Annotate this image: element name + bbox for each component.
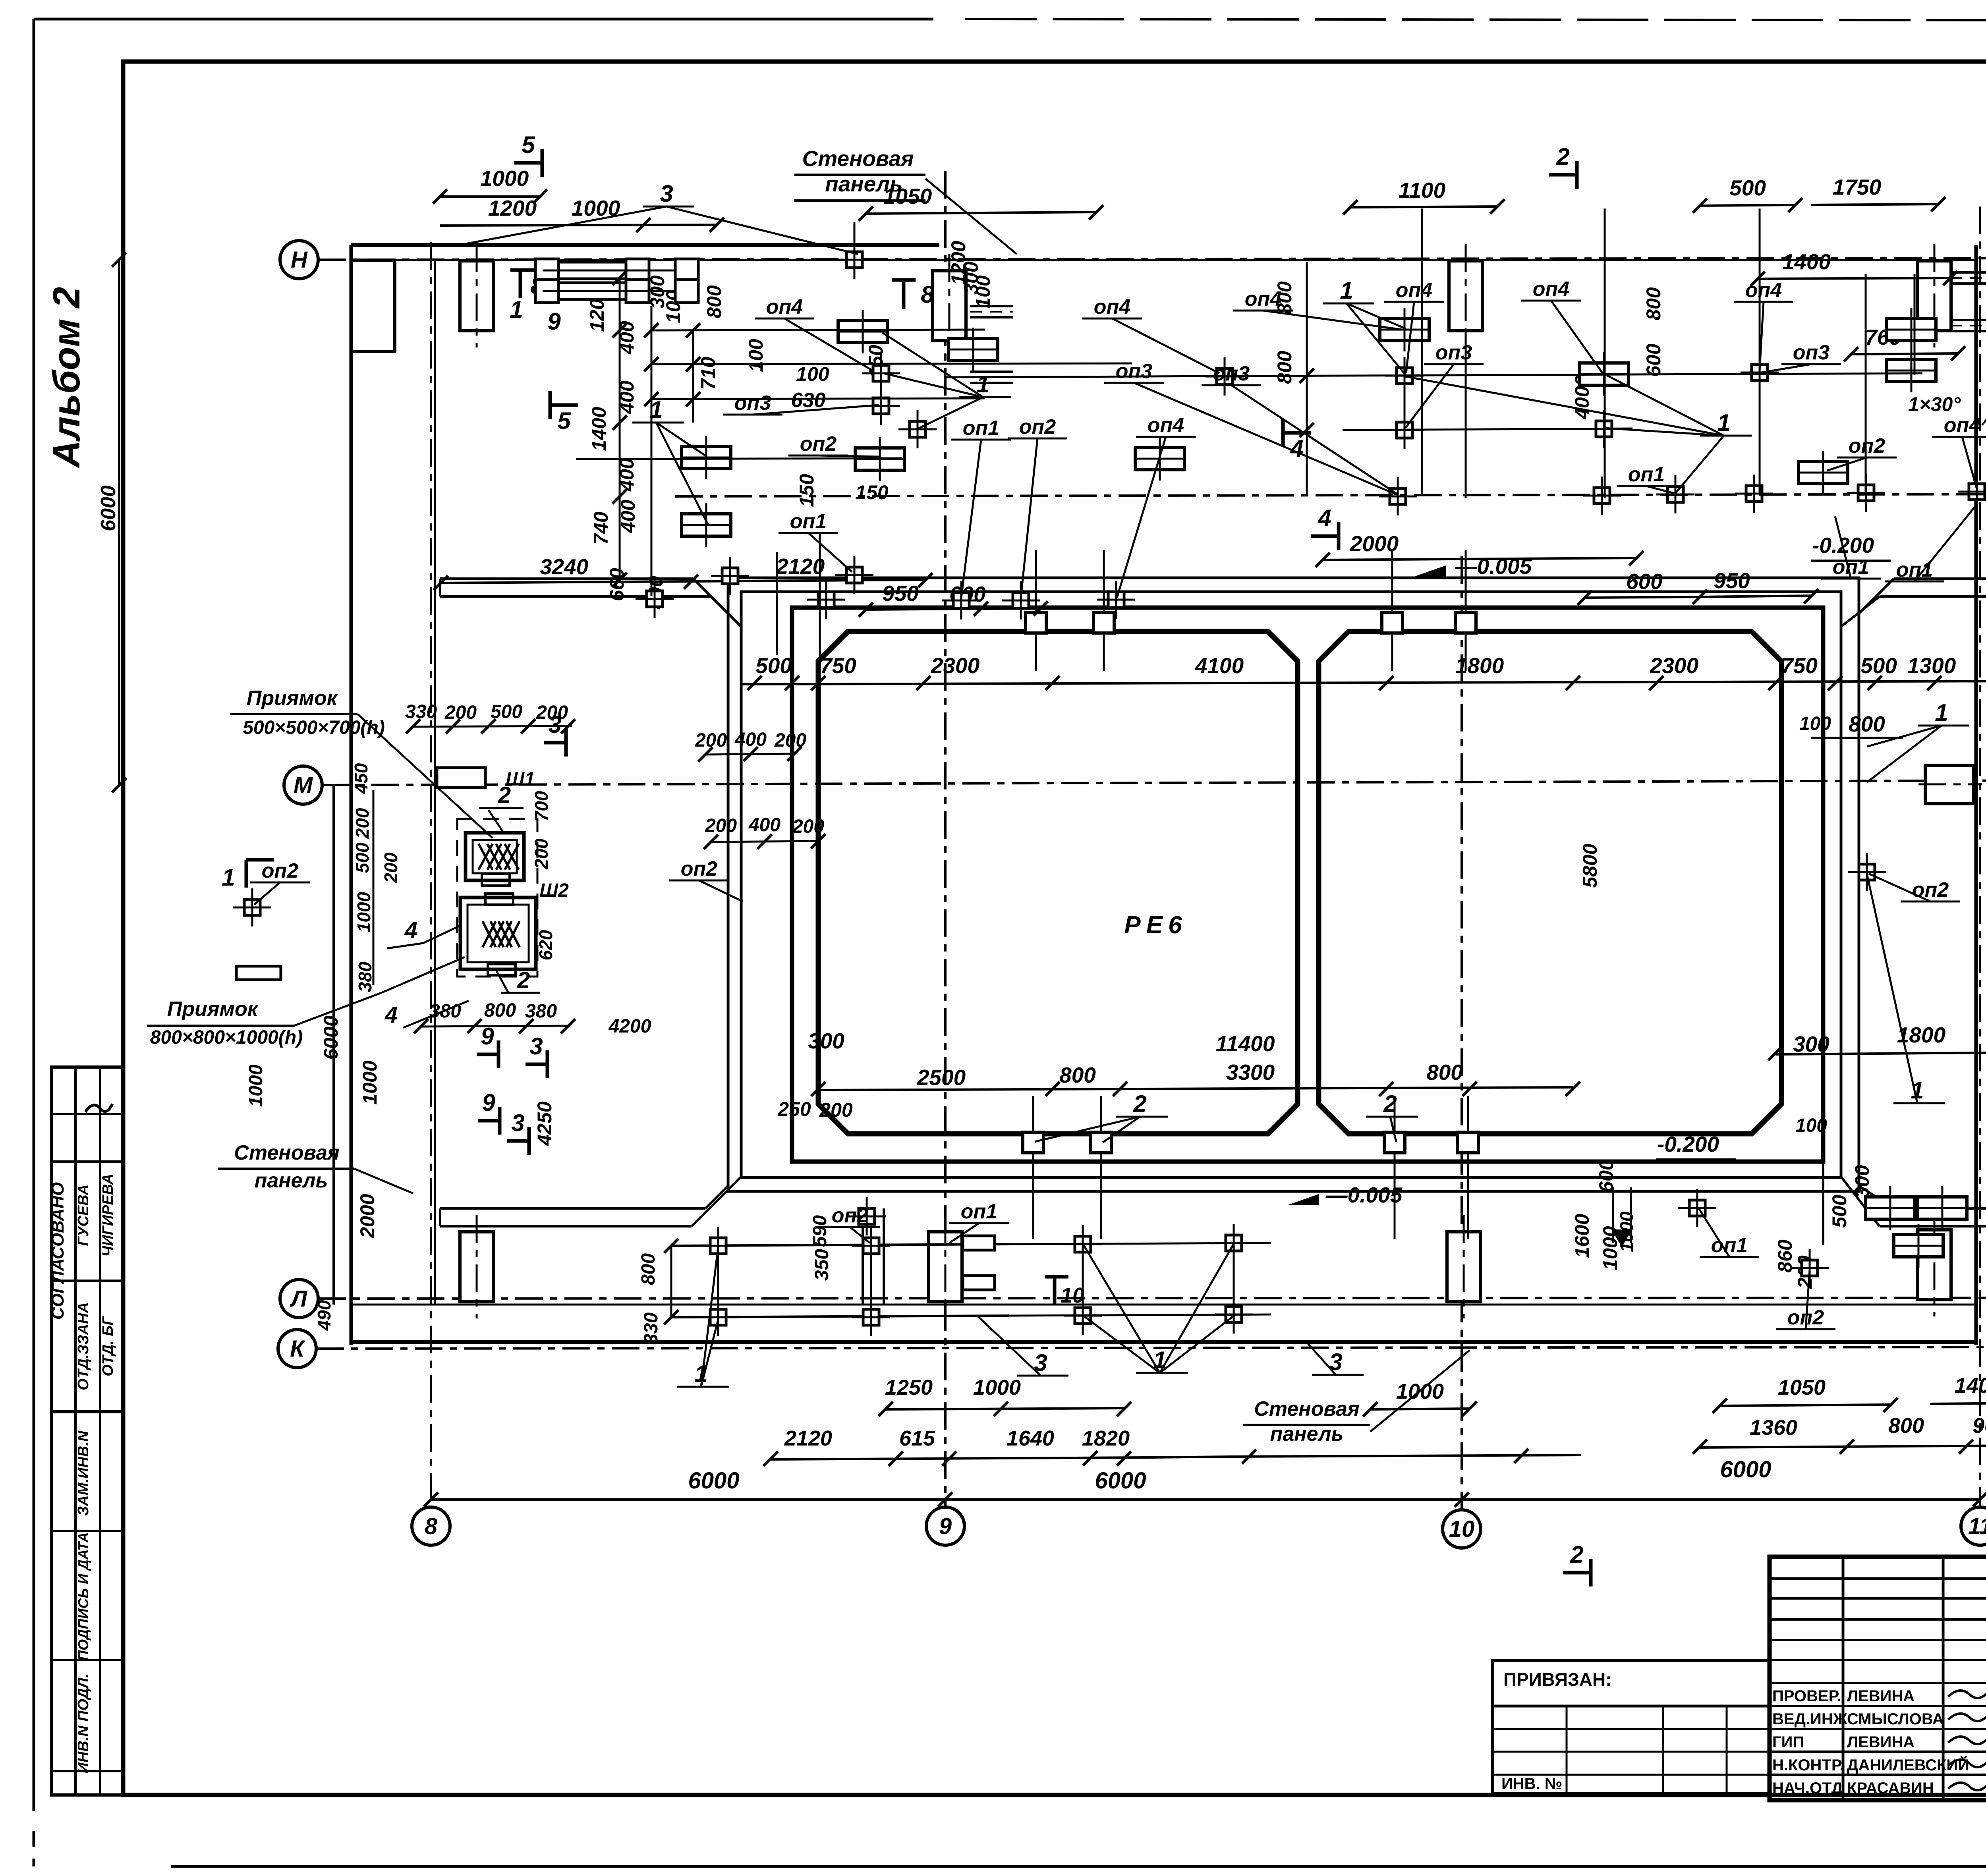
- label оп2 c: [1827, 434, 1897, 471]
- support square (4556,3193): [1791, 1249, 1829, 1287]
- support square (1838,1450): [711, 557, 749, 595]
- svg-text:2: 2: [1133, 1090, 1146, 1117]
- svg-text:9: 9: [547, 308, 561, 335]
- support square (3083,948): [1206, 357, 1244, 396]
- svg-text:1750: 1750: [1833, 175, 1882, 199]
- svg-text:250: 250: [777, 1098, 811, 1120]
- svg-text:6000: 6000: [97, 485, 120, 531]
- svg-text:100: 100: [1799, 713, 1831, 734]
- channel bend top-left inner: [711, 596, 741, 627]
- leader fan 3 top: [453, 180, 858, 254]
- label оп1 d: [1821, 516, 1881, 579]
- axis line 9 vertical: [944, 171, 947, 1507]
- svg-text:1300: 1300: [1907, 653, 1956, 678]
- support square (1808,3137): [699, 1227, 737, 1265]
- channel outer rectangle: [728, 578, 1859, 1191]
- top wall west stub: [351, 260, 395, 351]
- svg-text:150: 150: [855, 481, 889, 504]
- leader fan 2 bottom left cell: [1035, 1090, 1168, 1143]
- title row 4180: [1770, 1659, 1986, 1661]
- svg-text:ИНВ.N ПОДЛ.: ИНВ.N ПОДЛ.: [75, 1673, 92, 1773]
- band hline y1005: [651, 398, 985, 399]
- svg-text:КРАСАВИН: КРАСАВИН: [1847, 1779, 1934, 1797]
- svg-text:800×800×1000(h): 800×800×1000(h): [150, 1027, 303, 1048]
- cell-edge square bottom 2: [1091, 1132, 1111, 1153]
- svg-text:800: 800: [1888, 1414, 1924, 1438]
- section mark 2 top 2: [1549, 143, 1577, 189]
- wall panel bottom 2: [929, 1215, 962, 1318]
- wall channel stub: [1950, 320, 1986, 331]
- support bar (4759,3042): [1866, 1186, 1915, 1230]
- svg-text:оп2: оп2: [1849, 434, 1886, 457]
- svg-text:620: 620: [535, 930, 556, 960]
- strip row g: [52, 1770, 123, 1772]
- svg-text:2: 2: [517, 967, 530, 993]
- section mark 5 bottom 5: [550, 391, 578, 434]
- channel bend bottom-right inner: [1841, 1177, 1880, 1226]
- title row 3975: [1770, 1577, 1986, 1580]
- ПРИВЯЗАН table: [1493, 1660, 1770, 1793]
- svg-text:2120: 2120: [784, 1426, 832, 1450]
- svg-text:ОТД.ЗЗАНА: ОТД.ЗЗАНА: [75, 1302, 92, 1390]
- svg-text:РЕ6: РЕ6: [1124, 911, 1187, 939]
- svg-text:3240: 3240: [540, 554, 589, 579]
- svg-text:800: 800: [1642, 287, 1665, 320]
- svg-text:380: 380: [429, 1001, 461, 1022]
- svg-text:1400: 1400: [588, 407, 610, 451]
- svg-text:1250: 1250: [885, 1376, 933, 1399]
- bottom wall inner line on axis Л: [351, 1304, 1978, 1306]
- svg-text:1000: 1000: [354, 892, 374, 932]
- strip divider v2: [99, 1067, 101, 1795]
- left dim line M-L: [332, 785, 335, 1305]
- pit 2 outline 800x800: [460, 897, 536, 969]
- support bar (4830,3137): [1894, 1224, 1943, 1268]
- svg-text:380: 380: [355, 961, 375, 992]
- privyazan row 4469: [1493, 1774, 1770, 1776]
- svg-text:1: 1: [1935, 699, 1948, 726]
- svg-text:630: 630: [791, 389, 826, 412]
- leader fan 1 right: [1867, 699, 1969, 782]
- axis line 11 vertical: [1979, 207, 1981, 1507]
- svg-text:500: 500: [755, 653, 792, 678]
- wall panel top 1: [460, 244, 493, 347]
- svg-text:800: 800: [703, 285, 725, 318]
- cell-edge square bottom 4: [1458, 1132, 1478, 1153]
- wall channel stub: [970, 372, 1013, 383]
- section mark Т8: [892, 280, 934, 309]
- svg-text:100: 100: [1795, 1115, 1827, 1136]
- svg-text:2120: 2120: [776, 554, 825, 579]
- label оп2 west: [250, 859, 310, 905]
- section mark 9 small 9: [478, 1089, 500, 1135]
- svg-text:615: 615: [899, 1426, 935, 1450]
- svg-text:ОТД. БГ: ОТД. БГ: [100, 1316, 116, 1376]
- support square (4700,2196): [1848, 853, 1886, 891]
- label оп3 c: [1104, 360, 1396, 494]
- title block main rectangle: [1770, 1557, 1986, 1800]
- support square (2151,1448): [835, 556, 873, 594]
- svg-text:ИНВ. №: ИНВ. №: [1501, 1775, 1562, 1793]
- support square (4977,1238): [1958, 473, 1986, 511]
- section mark 10 bottom: [1045, 1277, 1084, 1307]
- support square (4218,1245): [1656, 475, 1694, 513]
- band hline y832: [651, 330, 985, 330]
- svg-text:оп2: оп2: [1019, 415, 1056, 438]
- svg-text:оп3: оп3: [1213, 362, 1250, 385]
- top-left assembly inner lines: [543, 270, 691, 272]
- svg-text:2300: 2300: [931, 653, 980, 678]
- support bar (4038,942): [1579, 352, 1629, 396]
- svg-text:4: 4: [404, 917, 417, 943]
- svg-text:оп2: оп2: [262, 859, 299, 882]
- bottom mid wall label leader: [1370, 1350, 1470, 1432]
- svg-text:оп4: оп4: [1944, 414, 1981, 437]
- svg-text:1600: 1600: [1571, 1214, 1593, 1258]
- label оп1 c: [1617, 463, 1676, 493]
- svg-text:оп2: оп2: [681, 857, 718, 880]
- svg-text:500: 500: [1828, 1195, 1851, 1228]
- top-left dim lines: [440, 195, 540, 198]
- section mark 3 small 3: [525, 1033, 547, 1078]
- svg-text:ЛЕВИНА: ЛЕВИНА: [1847, 1687, 1915, 1705]
- outer border bottom: [171, 1865, 1986, 1868]
- svg-text:Стеновая: Стеновая: [234, 1141, 339, 1164]
- support square (3519,1250): [1379, 477, 1417, 515]
- privyazan col 4187: [1662, 1706, 1664, 1793]
- svg-text:750: 750: [1781, 653, 1818, 678]
- title row 4130: [1770, 1639, 1986, 1641]
- axis line Л horizontal: [318, 1298, 1986, 1299]
- bottom right dim lines: [1700, 1446, 1986, 1448]
- svg-text:450: 450: [351, 763, 371, 794]
- title vert 4640: [1842, 1557, 1845, 1800]
- svg-text:Приямок: Приямок: [167, 998, 259, 1021]
- svg-text:6000: 6000: [1095, 1468, 1146, 1494]
- svg-text:оп4: оп4: [1094, 295, 1131, 318]
- svg-text:оп1: оп1: [1711, 1234, 1748, 1257]
- label оп1 a: [779, 510, 852, 572]
- label оп1 e: [1885, 504, 1977, 581]
- band hline y1083 right: [1343, 428, 1632, 430]
- vert through bottom squares: [870, 1229, 872, 1332]
- section mark 9 small 9: [477, 1023, 498, 1068]
- support square (4698,1241): [1847, 474, 1885, 512]
- west channel caps: [439, 579, 441, 596]
- support square (3536,1083): [1385, 411, 1424, 449]
- strip row f: [52, 1659, 123, 1661]
- label оп2 bottom: [820, 1204, 880, 1243]
- section mark 5 top 5: [514, 131, 542, 177]
- support square (2151,654): [835, 241, 873, 279]
- support square (4416,1243): [1735, 475, 1773, 513]
- label оп4 c: [1117, 414, 1196, 598]
- svg-text:800: 800: [1273, 351, 1296, 384]
- plan top dimension line: [741, 681, 1986, 684]
- signature squiggle 1: [1948, 1711, 1986, 1721]
- svg-text:1640: 1640: [1007, 1426, 1054, 1450]
- svg-text:300: 300: [1793, 1032, 1830, 1056]
- channel extension top pair: [440, 577, 693, 580]
- leader fan 3 bottom2: [1307, 1342, 1364, 1375]
- svg-text:150: 150: [796, 474, 818, 507]
- svg-text:ГИП: ГИП: [1772, 1733, 1804, 1751]
- svg-text:4: 4: [1290, 435, 1303, 462]
- title row 4025: [1770, 1597, 1986, 1600]
- slope arrow bottom stub: [1611, 1229, 1632, 1247]
- svg-text:Ш2: Ш2: [539, 880, 569, 901]
- channel bottom-left verticals to wall: [862, 1226, 864, 1305]
- svg-text:800: 800: [1059, 1063, 1096, 1087]
- svg-text:оп1: оп1: [963, 417, 999, 440]
- channel extension top-right inner: [1880, 595, 1986, 598]
- axis circle 10: [1443, 1510, 1481, 1548]
- signature squiggle 3: [1948, 1757, 1986, 1767]
- svg-text:1000: 1000: [245, 1064, 267, 1107]
- vdim x1640: [651, 306, 653, 596]
- right wall line: [1974, 245, 1978, 1345]
- svg-text:700: 700: [531, 791, 552, 821]
- dim lines near pits 200-400-200: [705, 754, 794, 755]
- svg-text:11: 11: [1968, 1513, 1986, 1539]
- bottom dim line joining segment: [1152, 1457, 1231, 1457]
- svg-text:1360: 1360: [1750, 1416, 1797, 1440]
- svg-text:1000: 1000: [359, 1060, 381, 1104]
- left wall inner line: [434, 260, 436, 1305]
- support bar (4890,3042): [1918, 1186, 1967, 1230]
- svg-text:оп4: оп4: [1245, 288, 1282, 311]
- support square (2182,3063): [848, 1197, 886, 1235]
- svg-text:590: 590: [809, 1215, 831, 1247]
- section mark 8 left: [510, 270, 544, 299]
- svg-text:оп1: оп1: [1628, 463, 1665, 486]
- cell-edge square bottom 3: [1384, 1132, 1405, 1153]
- svg-text:3: 3: [1034, 1349, 1047, 1376]
- svg-text:4100: 4100: [1195, 653, 1244, 678]
- signature squiggle 2: [1948, 1734, 1986, 1744]
- mid band axis row dash-dot: [675, 494, 1986, 496]
- svg-text:оп1: оп1: [790, 510, 827, 533]
- support square (2810,1510): [1097, 581, 1135, 619]
- svg-text:710: 710: [697, 357, 719, 390]
- svg-text:500: 500: [352, 842, 373, 873]
- svg-text:НАЧ.ОТД: НАЧ.ОТД: [1772, 1779, 1843, 1797]
- leader fan 1 bottom: [1084, 1244, 1234, 1373]
- label оп3 c2: [1762, 341, 1841, 372]
- channel extension top-right outer: [1894, 577, 1986, 580]
- label оп3 d: [1982, 357, 1986, 425]
- support square (1808,3317): [699, 1298, 737, 1336]
- svg-text:1: 1: [510, 296, 523, 323]
- pit 2 hatch: [483, 921, 520, 947]
- svg-text:2300: 2300: [1650, 653, 1699, 678]
- svg-text:4250: 4250: [533, 1101, 556, 1146]
- svg-text:400: 400: [748, 814, 780, 836]
- svg-text:300: 300: [808, 1029, 844, 1053]
- axis line 8 vertical: [430, 242, 432, 1507]
- support square (2193,3137): [852, 1227, 890, 1265]
- support square (2420,1512): [942, 581, 980, 620]
- privyazan col 4347: [1726, 1706, 1728, 1793]
- basin wall rectangle: [792, 608, 1823, 1162]
- left wall line: [350, 245, 353, 1345]
- svg-text:оп4: оп4: [1745, 279, 1782, 302]
- leader fan 2 bottom right cell: [1366, 1090, 1418, 1142]
- svg-text:2000: 2000: [356, 1194, 379, 1238]
- label оп3 a2: [1202, 362, 1398, 494]
- dim line bottom small a: [671, 1244, 1009, 1246]
- strip row a: [52, 1113, 123, 1115]
- top wall inner line: [351, 259, 1978, 261]
- svg-text:1050: 1050: [1778, 1376, 1826, 1399]
- svg-text:1: 1: [1153, 1347, 1166, 1373]
- support bar (2215,1156): [855, 437, 904, 481]
- svg-text:8: 8: [921, 281, 934, 308]
- svg-text:380: 380: [525, 1001, 557, 1022]
- support square (2193,3317): [852, 1298, 890, 1336]
- svg-text:оп3: оп3: [1793, 341, 1830, 364]
- svg-text:оп2: оп2: [832, 1204, 869, 1227]
- svg-text:200: 200: [381, 852, 401, 883]
- svg-text:1: 1: [694, 1361, 707, 1387]
- support square (4430,938): [1741, 353, 1779, 392]
- channel bend top-right inner: [1841, 596, 1880, 627]
- svg-text:10: 10: [1449, 1516, 1475, 1542]
- svg-text:ЧИГИРЕВА: ЧИГИРЕВА: [100, 1173, 116, 1256]
- cell-edge square top 2: [1093, 612, 1114, 633]
- svg-text:оп4: оп4: [1148, 414, 1184, 437]
- svg-text:1400: 1400: [1955, 1374, 1986, 1397]
- svg-text:200: 200: [531, 838, 552, 869]
- svg-text:2: 2: [1556, 143, 1569, 170]
- section mark 4 b 4: [1311, 505, 1339, 550]
- signature squiggle 4: [1948, 1780, 1986, 1790]
- svg-text:1: 1: [1340, 277, 1353, 304]
- leader fan 1 H-row: [1323, 277, 1406, 374]
- wall channel stub: [970, 306, 1013, 317]
- axis circle 11: [1961, 1507, 1986, 1545]
- svg-text:2: 2: [1570, 1541, 1583, 1568]
- svg-text:1: 1: [1717, 409, 1730, 436]
- svg-text:3300: 3300: [1226, 1060, 1275, 1085]
- svg-text:200: 200: [536, 702, 568, 723]
- bottom rows extended lines: [1009, 1243, 1271, 1244]
- svg-text:ПРИВЯЗАН:: ПРИВЯЗАН:: [1503, 1669, 1612, 1690]
- svg-text:600: 600: [1595, 1159, 1617, 1193]
- support bar (1778,1322): [682, 503, 731, 547]
- svg-text:1000: 1000: [973, 1376, 1021, 1399]
- second assembly right part: [675, 259, 698, 303]
- axis circle Л: [280, 1280, 318, 1318]
- bottom intermediate dim line: [771, 1457, 1152, 1459]
- svg-text:1800: 1800: [1455, 653, 1504, 678]
- axis line М horizontal: [322, 780, 1986, 785]
- svg-text:Н.КОНТР.: Н.КОНТР.: [1772, 1756, 1844, 1774]
- svg-text:3: 3: [660, 180, 673, 207]
- svg-text:100: 100: [745, 339, 767, 372]
- axis circle 9: [926, 1507, 964, 1545]
- svg-text:100: 100: [972, 275, 994, 309]
- svg-text:200: 200: [705, 815, 737, 836]
- bottom wall line: [351, 1340, 1978, 1344]
- bottom panel side bars: [963, 1236, 995, 1250]
- label оп2 b: [1008, 415, 1067, 598]
- svg-text:1400: 1400: [1782, 249, 1831, 274]
- label оп4 e: [1233, 288, 1402, 330]
- support square (2726,3313): [1064, 1297, 1102, 1335]
- title row 4354: [1770, 1728, 1986, 1730]
- axis circle 8: [412, 1507, 450, 1545]
- axis line 10 vertical: [1461, 556, 1463, 1510]
- label оп2 mid right: [1869, 874, 1960, 901]
- svg-text:950: 950: [1714, 568, 1750, 593]
- svg-text:8: 8: [425, 1513, 438, 1539]
- label оп4 h: [1932, 414, 1986, 490]
- bottom 6000 dimension line: [431, 1498, 1980, 1501]
- title row 4078: [1770, 1618, 1986, 1621]
- top wall label leader: [925, 179, 1017, 254]
- label оп4 a: [755, 295, 874, 371]
- vert through bottom squares: [717, 1229, 719, 1332]
- left dim line 6000 H-M: [118, 260, 120, 785]
- svg-text:950: 950: [882, 581, 919, 606]
- label оп4 f: [1521, 278, 1603, 373]
- pit 1 inner: [473, 840, 517, 873]
- pits dashed enclosure: [457, 819, 537, 977]
- svg-text:оп2: оп2: [1787, 1306, 1824, 1329]
- svg-text:ПОДПИСЬ И ДАТА: ПОДПИСЬ И ДАТА: [75, 1532, 91, 1661]
- svg-text:Приямок: Приямок: [247, 687, 338, 710]
- svg-text:панель: панель: [255, 1169, 328, 1192]
- wall panel bottom 1: [460, 1215, 493, 1318]
- svg-text:200: 200: [819, 1099, 853, 1121]
- support square (4273,3042): [1678, 1189, 1716, 1227]
- svg-text:800: 800: [638, 1253, 659, 1285]
- label оп3 a: [723, 392, 879, 415]
- svg-text:600: 600: [1626, 569, 1663, 594]
- outer border top-right dashed segment: [965, 19, 1986, 21]
- channel inner rectangle: [741, 592, 1841, 1177]
- svg-text:-0.200: -0.200: [1657, 1132, 1719, 1156]
- left cell outline: [818, 631, 1298, 1134]
- left stamp strip outline: [52, 1067, 123, 1795]
- svg-text:—0.005: —0.005: [1325, 1183, 1403, 1207]
- channel extension bottom-right: [1894, 1207, 1986, 1210]
- svg-text:ЛЕВИНА: ЛЕВИНА: [1847, 1733, 1915, 1751]
- cell-edge square top 1: [1026, 612, 1046, 633]
- label оп2 bottom right: [1776, 1270, 1835, 1329]
- svg-text:оп1: оп1: [1833, 556, 1869, 579]
- cell-edge square bottom 1: [1023, 1132, 1043, 1153]
- support square (2080,1510): [807, 581, 845, 619]
- leader fan 1 bottom-left: [677, 1247, 729, 1387]
- axis line К horizontal: [316, 1347, 1986, 1349]
- dim line bottom small b: [671, 1316, 1009, 1317]
- svg-text:оп1: оп1: [961, 1200, 997, 1223]
- svg-text:5: 5: [522, 131, 535, 158]
- pit dim lines: [373, 790, 375, 985]
- svg-text:1: 1: [222, 864, 235, 891]
- svg-text:1100: 1100: [1399, 178, 1446, 203]
- svg-text:1: 1: [976, 371, 989, 398]
- pit leader lines: [357, 714, 493, 838]
- wall panel bottom 3: [1447, 1215, 1480, 1318]
- dim line 1250-1000: [886, 1408, 1124, 1409]
- svg-text:1000: 1000: [1616, 1211, 1637, 1252]
- svg-text:330: 330: [641, 1312, 662, 1344]
- channel vertical stub bottom: [1612, 1187, 1614, 1243]
- strip divider v1: [74, 1067, 77, 1795]
